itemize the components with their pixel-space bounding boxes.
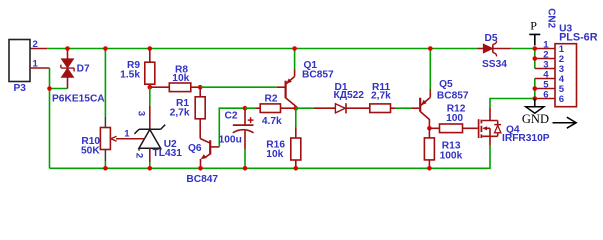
label C2 <box>225 111 238 122</box>
svg-text:TL431: TL431 <box>153 148 183 159</box>
junction R10 / bottom rail <box>103 166 108 171</box>
svg-text:1.5k: 1.5k <box>120 70 140 81</box>
svg-text:2: 2 <box>33 39 38 50</box>
svg-text:R2: R2 <box>265 93 278 104</box>
svg-text:2: 2 <box>134 153 145 158</box>
value label 2,7k (R11) <box>371 90 391 101</box>
pin 6 label (U3 inside) <box>559 94 564 105</box>
net P vertical (pins 1-3) <box>534 49 536 69</box>
junction top rail / R9 <box>148 46 153 51</box>
value label BC847 <box>186 174 218 185</box>
svg-text:50K: 50K <box>81 145 100 156</box>
svg-text:10k: 10k <box>266 149 283 160</box>
label R9 <box>127 60 140 71</box>
connector pin 6 stub <box>535 98 555 100</box>
wire Q4 drain to connector pin 6 <box>490 99 535 109</box>
value label BC857 (Q1) <box>302 70 334 81</box>
junction node P3.1/D7 <box>47 86 52 91</box>
resistor R2 <box>255 104 296 113</box>
svg-text:P6KE15CA: P6KE15CA <box>52 94 105 105</box>
pin 3 label (U3 outside) <box>543 60 548 71</box>
resistor R16 <box>291 128 301 169</box>
label R2 <box>265 93 278 104</box>
junction top rail / Q1 emitter <box>292 46 297 51</box>
resistor R12 <box>429 124 477 133</box>
svg-text:CN2: CN2 <box>545 8 556 28</box>
svg-text:BC857: BC857 <box>302 70 334 81</box>
wire P3 pin1 down to bottom rail <box>30 68 50 168</box>
label D7 <box>77 64 90 75</box>
value label TL431 <box>153 148 183 159</box>
value label 100 (R12) <box>446 113 463 124</box>
wire bottom ground rail <box>50 145 491 168</box>
pin 4 label (U3 inside) <box>559 74 565 85</box>
svg-text:P3: P3 <box>14 83 27 94</box>
net GND vertical (pins 4-6) <box>534 79 536 99</box>
capacitor C2 (100u electrolytic) <box>233 108 254 168</box>
label D1 <box>335 82 348 93</box>
svg-text:D7: D7 <box>77 64 90 75</box>
label U2 <box>164 139 177 150</box>
junction R16 / bottom rail <box>294 166 299 171</box>
svg-text:3: 3 <box>136 111 147 116</box>
connector pin 4 stub <box>535 78 555 80</box>
wire R16 from R2 node down <box>295 108 297 127</box>
resistor R8 <box>169 83 200 92</box>
connector U3 PLS-6R box <box>555 44 577 107</box>
junction Q6 emitter / bottom rail <box>198 166 203 171</box>
label R12 <box>447 104 466 115</box>
diode D1 (КД522) <box>335 103 350 113</box>
svg-text:Q6: Q6 <box>188 143 202 154</box>
value label КД522 <box>334 90 365 101</box>
svg-text:100k: 100k <box>440 151 463 162</box>
junction pin2 / P net <box>533 56 538 61</box>
pin 2 label (TL431) <box>134 153 145 158</box>
label R13 <box>442 141 461 152</box>
svg-text:IRFR310P: IRFR310P <box>502 133 550 144</box>
wire R11 to Q5 base <box>395 107 419 109</box>
svg-text:SS34: SS34 <box>482 59 507 70</box>
value label 1.5k <box>120 70 140 81</box>
wire top rail to R10 <box>104 49 106 128</box>
label Q4 <box>506 124 520 135</box>
label Q6 <box>188 143 202 154</box>
pin 1 label (P3) <box>33 58 39 69</box>
wire node R9/R8/TL431 <box>150 86 170 88</box>
label U3 <box>559 23 572 34</box>
junction pin5 / GND net <box>533 86 538 91</box>
arrow annotation <box>553 117 577 128</box>
transistor Q5 (BC857 PNP) <box>420 49 430 129</box>
value label P6KE15CA <box>52 94 105 105</box>
svg-text:GND: GND <box>522 112 549 126</box>
value label 4.7k <box>262 116 282 127</box>
junction Q1 collector / R2 / D1 / R16 <box>294 106 299 111</box>
svg-text:D5: D5 <box>485 33 498 44</box>
svg-text:100u: 100u <box>219 135 242 146</box>
svg-text:2,7k: 2,7k <box>371 90 391 101</box>
svg-text:6: 6 <box>543 90 548 101</box>
junction pin1 / P net <box>533 46 538 51</box>
value label 2,7k (R1) <box>170 107 190 118</box>
connector pin 2 stub <box>535 58 555 60</box>
svg-text:BC857: BC857 <box>437 90 469 101</box>
pin 2 label (U3 inside) <box>559 54 564 65</box>
svg-text:6: 6 <box>559 94 564 105</box>
junction top rail / R10 <box>103 46 108 51</box>
resistor R1 <box>195 87 205 138</box>
TVS diode D7 <box>61 49 74 89</box>
svg-text:C2: C2 <box>225 111 238 122</box>
label R16 <box>266 140 285 151</box>
wire branch to D7 bottom <box>50 88 68 90</box>
label R1 <box>176 98 189 109</box>
value label BC857 (Q5) <box>437 90 469 101</box>
svg-text:100: 100 <box>446 113 463 124</box>
resistor R11 <box>370 104 395 113</box>
junction R8/R1/Q1-base <box>198 85 203 90</box>
connector pin 1 stub <box>535 48 555 50</box>
TL431 shunt regulator U2 <box>116 87 165 168</box>
label Q5 <box>439 79 453 90</box>
value label 10k (R16) <box>266 149 283 160</box>
junction pin6 / GND net <box>533 96 538 101</box>
junction C2 / bottom rail <box>243 166 248 171</box>
pin 3 label (TL431) <box>136 111 147 116</box>
wire top rail (P3.2 to D5 anode) <box>30 48 478 50</box>
label R11 <box>372 82 390 93</box>
transistor Q6 (BC847 NPN) <box>200 139 219 169</box>
value label 50K <box>81 145 100 156</box>
wire Q1 node to D1 <box>296 107 336 109</box>
junction C2 / R2 wire <box>243 106 248 111</box>
pin 6 label (U3 outside) <box>543 90 548 101</box>
potentiometer R10 wiper wire <box>116 138 145 140</box>
connector pin 5 stub <box>535 88 555 90</box>
resistor R13 <box>424 128 434 168</box>
svg-text:PLS-6R: PLS-6R <box>559 32 598 44</box>
wire R8 node to Q1 base <box>200 86 285 88</box>
potentiometer R10 <box>100 128 144 169</box>
label Q1 <box>304 60 318 71</box>
svg-text:Q5: Q5 <box>439 79 453 90</box>
value label 10k (R8) <box>172 73 189 84</box>
connector P3 <box>9 40 30 95</box>
label R10 <box>81 136 100 147</box>
pin 1 label (TL431) <box>124 129 130 140</box>
pin 1 label (U3 outside) <box>543 40 549 51</box>
pin 5 label (U3 inside) <box>559 84 565 95</box>
junction TL431 / bottom rail <box>148 166 153 171</box>
power flag P <box>529 18 540 45</box>
diode D5 (SS34) <box>478 41 511 57</box>
MOSFET Q4 (IRFR310P) <box>479 108 502 145</box>
resistor R9 <box>145 49 155 88</box>
value label SS34 <box>482 59 507 70</box>
value label 100u <box>219 135 242 146</box>
pin 5 label (U3 outside) <box>543 80 549 91</box>
transistor Q1 (BC857 PNP) <box>286 49 296 109</box>
wire C2 node to R2 <box>245 107 255 109</box>
pin 4 label (U3 outside) <box>543 70 549 81</box>
value label IRFR310P <box>502 133 550 144</box>
pin 2 label (P3) <box>33 39 38 50</box>
value label 100k (R13) <box>440 151 463 162</box>
svg-text:10k: 10k <box>172 73 189 84</box>
svg-text:4.7k: 4.7k <box>262 116 282 127</box>
svg-text:2,7k: 2,7k <box>170 107 190 118</box>
label R8 <box>175 65 188 76</box>
junction top rail / Q5 emitter <box>428 46 433 51</box>
junction R9/R8/TL431 <box>148 85 153 90</box>
pin 3 label (U3 inside) <box>559 64 564 75</box>
connector pin 3 stub <box>535 68 555 70</box>
wire Q6 base up to C2/R2 node <box>219 108 245 147</box>
pin 1 label (U3 inside) <box>559 44 565 55</box>
label D5 <box>485 33 498 44</box>
junction top rail / D7 <box>65 46 70 51</box>
wire D1 to R11 <box>350 107 370 109</box>
pin 2 label (U3 outside) <box>543 50 548 61</box>
ground symbol GND <box>522 99 549 127</box>
svg-text:КД522: КД522 <box>334 90 365 101</box>
value label PLS-6R <box>559 32 598 44</box>
label CN2 (rotated) <box>545 8 556 28</box>
junction Q5 collector / R12 / R13 <box>427 126 432 131</box>
junction R13 / bottom rail <box>427 166 432 171</box>
wire D5 cathode to connector pin 1 <box>511 48 535 50</box>
svg-text:BC847: BC847 <box>186 174 218 185</box>
svg-text:P: P <box>530 18 537 32</box>
